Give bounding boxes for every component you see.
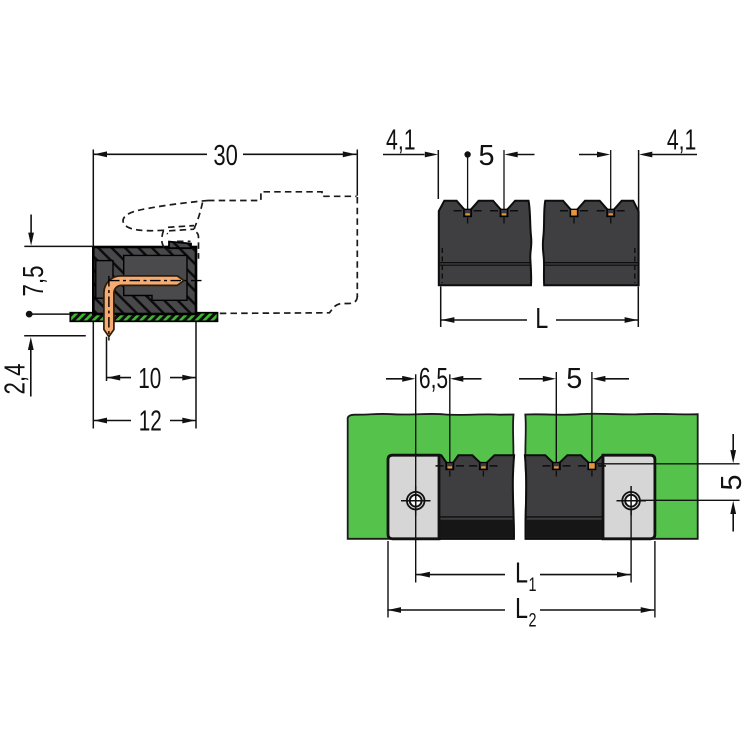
dashed outline: latch catch around tab	[162, 231, 172, 252]
dimension 7,5 bottom reference dot	[26, 311, 33, 318]
dimension L1 extension line right (screw 2)	[630, 510, 632, 583]
dashed outline: latch hook right	[194, 203, 202, 259]
svg-text:7,5: 7,5	[18, 266, 50, 297]
dashed outline: latch lever loop	[123, 201, 208, 235]
solder pin (bent copper, side view)	[104, 276, 184, 337]
connector body 1 (bottom view)	[439, 455, 514, 539]
dimension 4,1 right: right-pointing arrow at last pin	[579, 154, 598, 156]
PCB green piece 1	[348, 414, 514, 539]
dimension 5 top: dot at first pin	[464, 151, 470, 157]
dimension 10 line	[107, 377, 132, 379]
dimension L1 line	[416, 574, 505, 576]
screw 2 outer circle	[617, 486, 647, 516]
housing top latch tab	[169, 242, 191, 249]
extension line right (x=196 for dims 10/12)	[195, 314, 197, 429]
pin center line vertical	[108, 276, 110, 341]
svg-text:1: 1	[529, 575, 537, 596]
svg-text:6,5: 6,5	[419, 363, 448, 395]
dimension 4,1 right: left-pointing arrow at right edge	[652, 154, 697, 156]
dimension 7,5 top reference line	[24, 245, 92, 247]
dimension 6,5 extension line through screw 1 (to L1)	[415, 374, 417, 582]
svg-text:30: 30	[213, 140, 238, 172]
svg-text:4,1: 4,1	[667, 125, 697, 157]
svg-text:5: 5	[566, 363, 582, 395]
dimension L2 line	[387, 609, 505, 611]
dashed outline: mating connector top edge	[208, 192, 357, 201]
bottom view pin center ticks	[450, 471, 592, 477]
mounting plate 2 (gray)	[603, 455, 655, 539]
dashed outline: mating connector right edge	[356, 197, 358, 297]
mounting plate 1 (gray)	[388, 455, 439, 539]
dimension L line	[441, 319, 527, 321]
dimension 5 (bottom view) extension lines	[555, 372, 557, 462]
dimension 2,4 reference line (pin tip level)	[24, 335, 86, 337]
dimension L2 extension lines	[387, 541, 389, 618]
body 1 base line and black strip	[439, 516, 513, 518]
svg-text:4,1: 4,1	[386, 125, 416, 157]
green PCB strip (side view)	[70, 313, 217, 322]
extension line pin center (x=106.5 for dim 10)	[106, 337, 108, 381]
dimension 5 arrows	[519, 378, 543, 380]
svg-text:L: L	[515, 558, 528, 590]
top view block 2 body	[543, 201, 639, 286]
dimension 5 vertical right: screw row line	[640, 499, 740, 501]
dashed outline: latch arm lines	[168, 226, 194, 231]
connector housing body (hatched cross-section)	[93, 247, 196, 314]
top view groove double line block1	[439, 263, 531, 266]
bottom view pin row dashes	[436, 465, 607, 467]
dimension 5 top: left-pointing arrow at second pin	[518, 154, 535, 156]
PCB green piece 2	[525, 414, 697, 539]
svg-text:5: 5	[716, 474, 748, 490]
top view dashed inner edge right	[634, 248, 636, 283]
dimension 5 vertical right: pin row line	[597, 463, 740, 465]
svg-text:2,4: 2,4	[0, 364, 32, 395]
svg-text:12: 12	[139, 406, 162, 438]
connector body 2 (bottom view)	[525, 455, 603, 539]
body 2 base line and black strip	[526, 516, 603, 518]
dimension 30 right extension (solid part)	[356, 150, 358, 196]
extension line left (x=93.3 for dims 30/12)	[92, 150, 94, 429]
svg-text:10: 10	[138, 363, 161, 395]
dashed outline: tab top short line	[177, 240, 191, 242]
top view pin row dashes	[454, 210, 625, 212]
svg-text:L: L	[515, 593, 528, 625]
housing left wall window	[96, 261, 113, 299]
svg-text:5: 5	[478, 140, 494, 172]
dimension 12 line	[93, 420, 131, 422]
dimension 30 line	[93, 153, 207, 155]
bottom view pin holes	[446, 463, 595, 470]
dimension 6,5 arrows	[386, 378, 403, 380]
svg-text:2: 2	[529, 610, 537, 631]
pin center line horizontal	[109, 280, 205, 282]
dimension 4,1 left: arrow and extension	[383, 154, 425, 156]
dimension 7,5 top arrow	[30, 215, 32, 236]
dimension 5 vertical arrows	[732, 434, 734, 451]
svg-text:L: L	[535, 303, 548, 335]
top view pin holes with solder pins	[464, 209, 614, 216]
top view block 1 body	[439, 201, 532, 286]
housing cavity (unhatched opening)	[124, 255, 187, 300]
dimension 6,5 extension line at first pin	[449, 374, 451, 462]
dimension 2,4 arrow	[30, 348, 32, 397]
top view pin center ticks below	[468, 218, 611, 224]
dashed outline: mating connector bottom hook and PCB line	[218, 296, 358, 313]
top view groove double line block2	[544, 263, 639, 266]
screw 1 outer circle	[401, 486, 431, 516]
dimension L extension lines	[440, 287, 442, 328]
top view dashed inner edge left	[441, 248, 443, 283]
